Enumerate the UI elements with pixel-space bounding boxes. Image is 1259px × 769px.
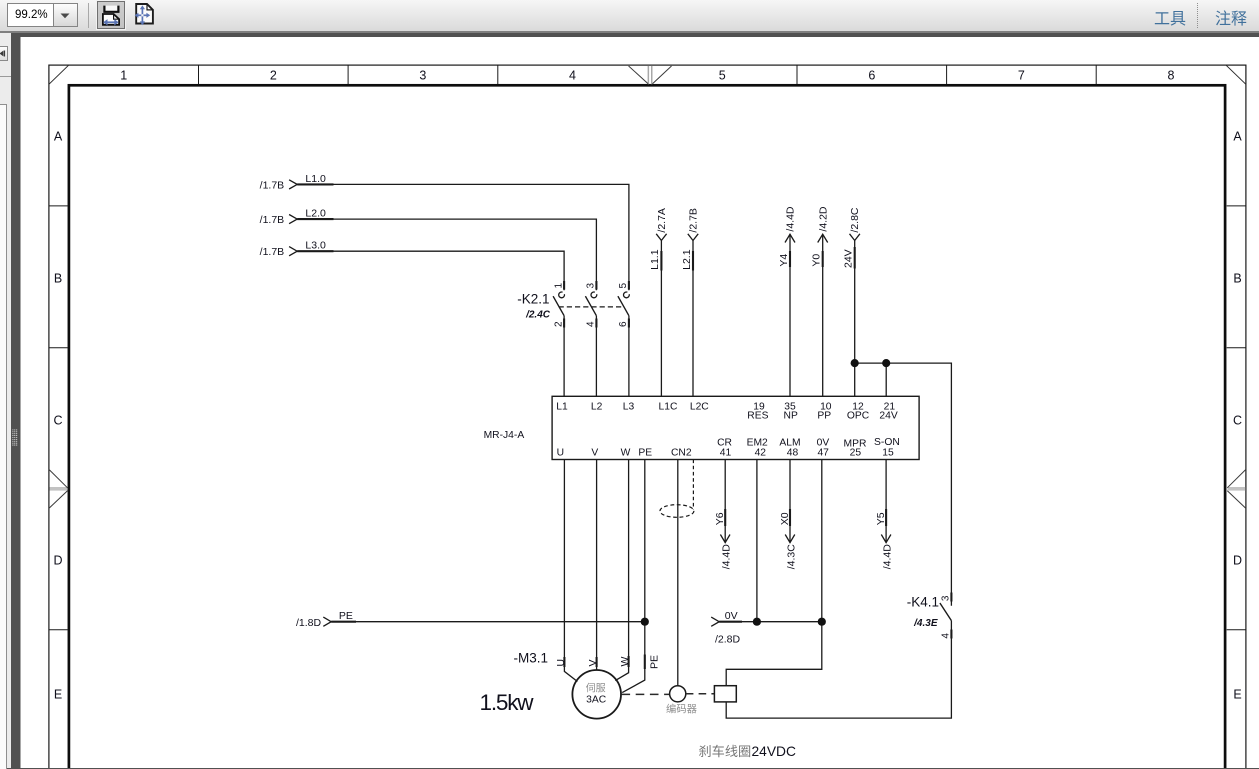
svg-text:PE: PE — [649, 655, 661, 669]
contactor K2.1 pole 3-4 — [585, 292, 596, 396]
wire right loop horizontal + down to K4.1 — [855, 363, 952, 606]
junction node at 24V/OPC — [851, 359, 859, 367]
svg-text:CN2: CN2 — [671, 448, 692, 459]
svg-text:L1C: L1C — [659, 401, 678, 412]
source arrow tail L1.1 — [656, 234, 666, 241]
wire L3.0 from /1.7B to contact pole 1 — [297, 251, 564, 290]
contactor K2.1 pole 1-2 — [553, 292, 564, 396]
column numbers 1-8 — [120, 69, 1174, 83]
svg-text:Y6: Y6 — [714, 512, 726, 525]
svg-text:2: 2 — [270, 69, 277, 83]
svg-text:1: 1 — [553, 283, 564, 289]
svg-text:L3: L3 — [623, 401, 635, 412]
column ticks top band — [199, 65, 1097, 84]
wire W to motor — [615, 460, 628, 681]
svg-text:4: 4 — [586, 321, 597, 327]
svg-text:编码器: 编码器 — [666, 703, 697, 716]
junction node 0V47 — [818, 618, 826, 626]
svg-text:41: 41 — [720, 448, 732, 459]
svg-text:6: 6 — [618, 321, 629, 327]
svg-text:NP: NP — [784, 411, 798, 422]
svg-text:Y0: Y0 — [811, 254, 823, 267]
source arrow tail L2.1 — [688, 234, 698, 241]
toolbar — [0, 0, 1259, 33]
svg-text:1.5kw: 1.5kw — [480, 690, 535, 715]
sidebar strip — [0, 33, 11, 768]
svg-text:4: 4 — [941, 633, 952, 639]
dashed shield wire CN2 — [692, 460, 694, 510]
svg-text:S-ON: S-ON — [874, 437, 900, 448]
svg-text:1: 1 — [120, 69, 127, 83]
svg-text:L2C: L2C — [690, 401, 709, 412]
svg-text:D: D — [53, 554, 62, 568]
wire L2C with source arrow — [692, 241, 694, 397]
svg-text:/1.7B: /1.7B — [260, 214, 285, 226]
svg-text:/1.7B: /1.7B — [260, 246, 285, 258]
svg-text:X0: X0 — [779, 512, 791, 525]
svg-text:-K2.1: -K2.1 — [517, 292, 549, 307]
svg-text:48: 48 — [787, 448, 799, 459]
brake connector rectangle — [714, 686, 736, 702]
svg-text:A: A — [1233, 130, 1242, 144]
source arrow /1.7B L2.0 — [289, 215, 297, 224]
wire Y0 up-arrow to PP — [822, 234, 824, 396]
svg-text:/2.4C: /2.4C — [525, 309, 551, 320]
arrowhead Y0 — [818, 234, 828, 242]
row letters A-E right — [1233, 130, 1242, 702]
dashed shield ellipse — [660, 505, 694, 518]
wire ALM to X0 down-arrow — [789, 460, 791, 543]
dashed wire motor to encoder — [622, 693, 670, 695]
svg-text:U: U — [555, 659, 567, 667]
svg-text:24VDC: 24VDC — [752, 744, 797, 759]
arrowhead Y6 — [720, 535, 730, 543]
source arrow tail 24V — [850, 234, 860, 241]
wire 0V horizontal from /2.8D — [719, 621, 822, 623]
svg-text:/4.4D: /4.4D — [785, 206, 797, 232]
wire pin21 24V — [885, 363, 887, 396]
K2.1 mechanical linkage dashed — [559, 306, 624, 308]
arrowhead X0 — [785, 535, 795, 543]
row ticks left band — [49, 206, 68, 630]
svg-text:2: 2 — [553, 321, 564, 327]
svg-text:/4.3E: /4.3E — [913, 618, 938, 629]
contactor K2.1 pole 5-6 — [618, 292, 629, 396]
svg-text:/4.4D: /4.4D — [881, 544, 893, 570]
left centre fold mark — [49, 469, 68, 508]
svg-text:47: 47 — [817, 448, 829, 459]
wire PE horizontal from /1.8D — [331, 621, 645, 623]
wire 24V source to OPC — [854, 241, 856, 397]
svg-text:L1.1: L1.1 — [649, 249, 661, 270]
arrowhead Y4 — [785, 234, 795, 242]
svg-text:B: B — [1233, 272, 1241, 286]
junction node EM2/0V — [753, 618, 761, 626]
source arrow /2.8D 0V — [711, 617, 719, 626]
svg-text:25: 25 — [850, 448, 862, 459]
svg-text:L2.0: L2.0 — [305, 208, 326, 220]
svg-text:D: D — [1233, 554, 1242, 568]
svg-text:W: W — [619, 657, 631, 667]
source arrow /1.8D PE — [323, 617, 331, 626]
wire Y4 up-arrow to NP — [789, 234, 791, 396]
svg-text:OPC: OPC — [847, 411, 870, 422]
svg-text:/2.7B: /2.7B — [687, 208, 699, 233]
svg-text:5: 5 — [618, 283, 629, 289]
svg-text:3: 3 — [419, 69, 426, 83]
svg-text:15: 15 — [882, 448, 894, 459]
svg-text:/2.8D: /2.8D — [715, 633, 741, 645]
svg-text:24V: 24V — [843, 249, 855, 268]
svg-text:/4.3C: /4.3C — [785, 544, 797, 570]
svg-text:E: E — [1233, 688, 1241, 702]
svg-text:L1: L1 — [556, 401, 568, 412]
wire V to motor — [596, 460, 598, 671]
wire L2.0 from /1.7B to contact pole 3 — [297, 219, 596, 290]
svg-text:4: 4 — [569, 69, 576, 83]
svg-text:5: 5 — [719, 69, 726, 83]
svg-text:A: A — [54, 130, 63, 144]
svg-text:C: C — [1233, 414, 1242, 428]
svg-text:6: 6 — [868, 69, 875, 83]
svg-text:3AC: 3AC — [586, 694, 607, 705]
frame corner diagonal top-left — [49, 65, 69, 84]
junction node PE — [641, 618, 649, 626]
row ticks right band — [1227, 206, 1246, 630]
svg-text:伺服: 伺服 — [586, 682, 606, 695]
source arrow /1.7B L3.0 — [289, 247, 297, 256]
svg-text:3: 3 — [941, 595, 952, 601]
block pin labels top row — [556, 401, 898, 421]
wire CN2 to encoder — [677, 460, 679, 686]
svg-text:W: W — [621, 448, 631, 459]
svg-text:7: 7 — [1018, 69, 1025, 83]
source arrow /1.7B L1.0 — [289, 180, 297, 189]
wire 0V pin47 down then to brake — [726, 460, 822, 686]
svg-text:/2.8C: /2.8C — [849, 207, 861, 233]
svg-text:E: E — [54, 688, 62, 702]
svg-text:刹车线圈: 刹车线圈 — [699, 743, 752, 759]
svg-text:PE: PE — [638, 448, 652, 459]
svg-text:RES: RES — [747, 411, 768, 422]
wire PE to motor — [622, 460, 645, 693]
svg-text:/1.7B: /1.7B — [260, 179, 285, 191]
svg-text:8: 8 — [1168, 69, 1175, 83]
wire L1C with source arrow — [660, 241, 662, 397]
svg-text:B: B — [54, 272, 62, 286]
svg-text:-M3.1: -M3.1 — [513, 651, 548, 666]
svg-text:L2: L2 — [591, 401, 603, 412]
svg-text:U: U — [557, 448, 564, 459]
wire CR to Y6 down-arrow — [724, 460, 726, 543]
svg-text:Y5: Y5 — [875, 512, 887, 525]
svg-text:/4.2D: /4.2D — [817, 206, 829, 232]
svg-text:3: 3 — [586, 283, 597, 289]
wire U to motor — [564, 460, 577, 682]
dashed wire encoder to brake connector — [686, 693, 715, 695]
svg-text:L2.1: L2.1 — [681, 249, 693, 270]
block pin labels bottom row — [557, 437, 900, 459]
arrowhead Y5 — [881, 535, 891, 543]
svg-text:PE: PE — [339, 610, 353, 622]
svg-text:C: C — [53, 414, 62, 428]
relay contact K4.1 blade — [940, 603, 952, 621]
servo drive block U1 MR-J4-A — [552, 396, 919, 459]
wire L1.0 from /1.7B to contact pole 5 — [297, 184, 629, 290]
wire EM2 down to 0V net — [756, 460, 758, 622]
svg-text:/1.8D: /1.8D — [296, 617, 322, 629]
motor M3.1 circle — [572, 670, 621, 719]
svg-text:Y4: Y4 — [778, 254, 790, 267]
svg-text:/2.7A: /2.7A — [656, 208, 668, 233]
junction node at pin21 — [882, 359, 890, 367]
frame corner diagonal top-right — [1226, 65, 1246, 84]
svg-text:L1.0: L1.0 — [305, 173, 326, 185]
svg-text:MR-J4-A: MR-J4-A — [484, 430, 525, 441]
wire S-ON to Y5 down-arrow — [885, 460, 887, 543]
svg-text:0V: 0V — [725, 610, 738, 622]
row letters A-E left — [53, 130, 62, 702]
svg-text:V: V — [591, 448, 598, 459]
encoder circle — [670, 686, 686, 702]
wire brake bottom loop to K4.1 — [726, 621, 951, 719]
right centre fold mark — [1227, 469, 1246, 508]
svg-text:L3.0: L3.0 — [305, 240, 326, 252]
svg-text:/4.4D: /4.4D — [721, 544, 733, 570]
svg-text:-K4.1: -K4.1 — [907, 595, 939, 610]
svg-text:42: 42 — [755, 448, 767, 459]
svg-text:V: V — [587, 659, 599, 666]
top centre fold mark — [629, 66, 672, 85]
svg-text:24V: 24V — [879, 411, 897, 422]
svg-text:PP: PP — [817, 411, 831, 422]
label underline thickening segments — [297, 184, 951, 669]
